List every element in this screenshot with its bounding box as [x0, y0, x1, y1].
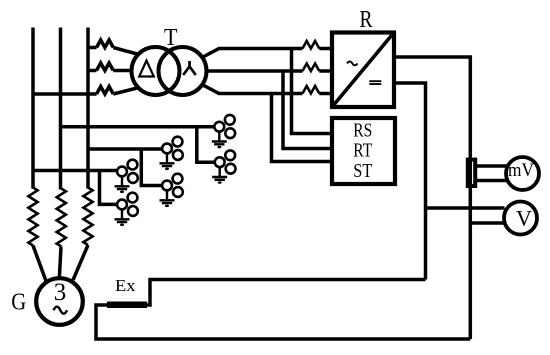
ground F — [115, 209, 130, 226]
svg-text:ST: ST — [353, 161, 372, 182]
wire shunt to mV bottom — [477, 179, 507, 183]
svg-text:RT: RT — [353, 141, 372, 162]
resistor generator phase2 — [57, 189, 66, 247]
wire secondary top — [202, 49, 303, 58]
transformer T primary winding — [132, 47, 180, 95]
bus phase 2 — [59, 28, 63, 190]
delta symbol — [139, 61, 154, 77]
label RT — [353, 141, 372, 162]
label 3 — [54, 279, 67, 306]
wire to rectifier row2 — [319, 69, 332, 73]
voltmeter V — [504, 202, 537, 235]
resistor primary row2 — [97, 63, 114, 71]
label ST — [353, 161, 372, 182]
wire lamp drop to group D — [141, 149, 163, 186]
lamp group D — [162, 174, 183, 197]
svg-text:V: V — [516, 206, 532, 231]
wire row1 into transformer — [113, 48, 139, 55]
label Ex — [115, 276, 136, 295]
wire lamp drop to group B — [197, 127, 216, 163]
resistor generator phase1 — [28, 188, 37, 246]
resistor before rectifier row3 — [303, 86, 320, 94]
label mV — [508, 160, 534, 181]
label RS — [353, 121, 372, 142]
resistor before rectifier row2 — [303, 64, 320, 72]
svg-text:R: R — [360, 7, 373, 33]
generator G circle — [36, 278, 83, 325]
ground E — [115, 176, 130, 193]
wire V meter top tap — [426, 206, 505, 210]
lamp group A — [214, 115, 235, 138]
bus phase 1 — [31, 28, 35, 189]
wire to generator phase3 — [73, 245, 88, 280]
resistor before rectifier row1 — [303, 41, 320, 49]
wire drop3 to RS box — [272, 94, 333, 162]
label V — [516, 206, 532, 231]
wire lamp line 2 from bus3 — [88, 147, 163, 151]
svg-text:RS: RS — [353, 121, 372, 142]
svg-text:mV: mV — [508, 160, 534, 181]
resistor primary row3 — [97, 87, 114, 95]
wire row2 bus3 stub — [88, 69, 97, 73]
equals DC mark — [369, 81, 381, 84]
wire secondary middle — [207, 69, 303, 73]
label G — [11, 290, 26, 316]
label T — [164, 25, 178, 51]
tilde AC mark — [347, 62, 358, 66]
wire shunt to mV top — [477, 164, 507, 168]
wire drop2 to RS box — [283, 71, 332, 149]
lamp group E — [117, 160, 138, 183]
wire row3 bus1 to transformer — [33, 92, 97, 96]
wire to rectifier row1 — [319, 47, 332, 51]
generator tilde — [54, 307, 68, 314]
ground B — [212, 167, 227, 184]
svg-text:Ex: Ex — [115, 276, 136, 295]
wire to rectifier row3 — [319, 92, 332, 96]
wire row1 bus3 stub — [88, 46, 97, 50]
wire drop1 to RS box — [292, 49, 333, 134]
wire lamp line 3 from bus1 — [33, 169, 118, 173]
svg-text:T: T — [164, 25, 178, 51]
bus phase 3 — [86, 28, 90, 189]
resistor generator phase3 — [83, 188, 92, 246]
lamp group C — [162, 137, 183, 160]
wire rectifier output top to shunt line — [394, 57, 470, 339]
millivoltmeter mV — [506, 157, 539, 190]
lamp group F — [117, 193, 138, 216]
box RS RT ST — [332, 118, 395, 184]
wire rectifier output bottom — [394, 83, 426, 280]
shunt — [468, 160, 475, 186]
resistor primary row1 — [97, 40, 114, 48]
excitation winding Ex bar — [107, 302, 147, 309]
wire row3 into transformer — [113, 88, 139, 95]
label R — [360, 7, 373, 33]
wire secondary bottom — [202, 85, 303, 94]
transformer T secondary winding — [159, 47, 207, 95]
rectifier R box — [332, 33, 394, 108]
wire Ex left to bottom rail — [96, 305, 470, 339]
svg-text:3: 3 — [54, 279, 67, 306]
wire to generator phase2 — [59, 247, 61, 279]
wire V meter bottom tap — [470, 221, 504, 225]
ground D — [160, 190, 175, 207]
wire row2 into transformer — [113, 69, 132, 73]
wye symbol (inverted Y) — [183, 61, 196, 75]
wire lamp drop to group F — [100, 171, 119, 205]
svg-text:G: G — [11, 290, 26, 316]
lamp group B — [215, 150, 236, 173]
wire Ex right up to dc rail — [147, 280, 426, 306]
ground A — [212, 131, 227, 148]
wire to generator phase1 — [33, 246, 46, 282]
wire lamp line 1 from bus2 — [61, 125, 216, 129]
rectifier diagonal — [332, 33, 394, 108]
ground C — [160, 153, 175, 170]
